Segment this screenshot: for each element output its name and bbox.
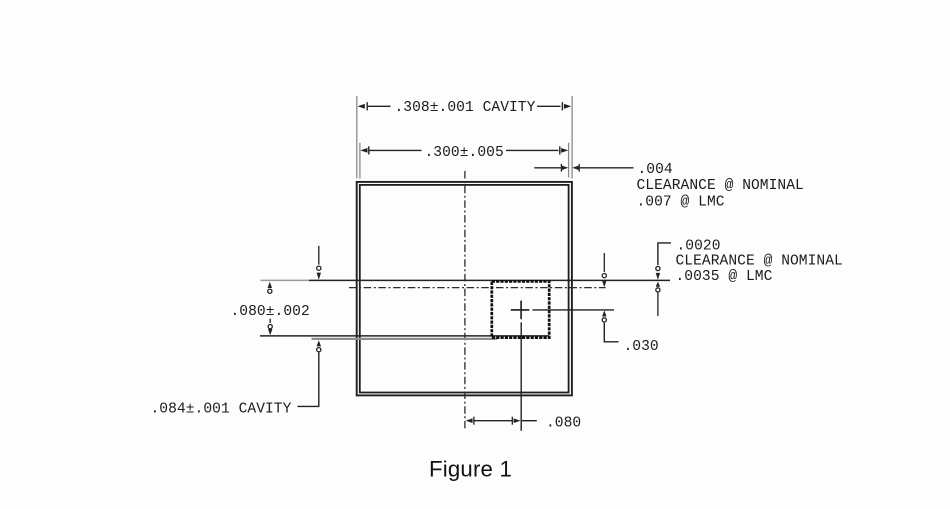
dim .080 bottom line [474, 420, 513, 422]
outer cavity square [357, 182, 572, 396]
dim .004 line right segment [580, 167, 634, 169]
dim .030 leader [604, 323, 618, 342]
svg-text:.007 @ LMC: .007 @ LMC [637, 194, 725, 210]
svg-text:Figure 1: Figure 1 [429, 457, 512, 482]
dim .084 upper circle [317, 266, 321, 270]
dim .080 vert lower circle [268, 325, 272, 329]
dim .308 left tick [366, 102, 368, 110]
dim .300 left arrowhead [360, 148, 367, 153]
dim .308 right arrowhead [564, 104, 571, 109]
dim .300 left tick [368, 146, 370, 154]
left outer extension line [356, 96, 358, 179]
svg-text:.084±.001 CAVITY: .084±.001 CAVITY [151, 402, 292, 418]
insert top line black segment [309, 279, 670, 281]
dim .084 upper tail [318, 246, 320, 265]
dim .080 bottom left arrowhead [466, 418, 473, 423]
dim .030 upper circle [602, 274, 606, 278]
svg-text:.0035 @ LMC: .0035 @ LMC [676, 269, 773, 285]
svg-text:CLEARANCE @ NOMINAL: CLEARANCE @ NOMINAL [676, 254, 843, 270]
insert bottom line [260, 335, 549, 337]
left inner extension line [359, 143, 361, 179]
dim .084 lower circle [317, 348, 321, 352]
dim .080 bottom right tick [511, 417, 513, 425]
center mark vertical bar [520, 301, 522, 320]
dim .308 right tick [561, 102, 563, 110]
dim .080 bottom left tick [473, 417, 475, 425]
dim .004 inner arrowhead [562, 166, 568, 170]
horizontal centerline [349, 287, 606, 289]
right outer extension line [571, 96, 573, 179]
dim .0020 lower arrowhead [656, 282, 660, 287]
dim .300 right tick [559, 146, 561, 154]
svg-text:.080±.002: .080±.002 [231, 304, 310, 320]
dim .300 right arrowhead [561, 148, 568, 153]
dim .084 upper arrowhead [317, 273, 321, 280]
svg-text:CLEARANCE @ NOMINAL: CLEARANCE @ NOMINAL [637, 178, 804, 194]
dim .0020 upper arrowhead [656, 273, 660, 280]
right inner extension line [568, 143, 570, 178]
dim .030 lower circle [602, 318, 606, 322]
svg-text:.080: .080 [546, 415, 581, 431]
svg-text:.030: .030 [624, 339, 659, 355]
line from center to right [533, 309, 615, 311]
inner insert square [360, 185, 569, 393]
dim .300 line right segment [506, 149, 559, 151]
dim .0020 bracket [658, 243, 671, 265]
dim .080 bottom line right stub [522, 420, 537, 422]
dim .0020 upper circle [656, 266, 660, 270]
svg-text:.308±.001 CAVITY: .308±.001 CAVITY [395, 100, 536, 116]
vertical centerline [464, 171, 466, 431]
line from center down [520, 322, 522, 431]
dim .080 bottom right arrowhead [514, 418, 521, 423]
dim .004 inner tick [560, 164, 562, 172]
insert top line gray segment [261, 279, 311, 281]
dim .0020 lower circle [656, 288, 660, 292]
dim .080 vert upper arrow circle [268, 289, 272, 293]
dim .300 line left segment [370, 149, 422, 151]
dim .308 line right segment [537, 105, 561, 107]
svg-text:.004: .004 [638, 162, 673, 178]
dim .084 lower arrowhead [317, 340, 321, 346]
dim .080 vert lower arrowhead [268, 329, 272, 335]
dim .030 upper arrowhead [602, 281, 606, 288]
dim .004 line left segment [534, 167, 561, 169]
dim .084 leader vertical [298, 353, 319, 407]
svg-text:.300±.005: .300±.005 [425, 145, 504, 161]
center mark horizontal bar [511, 309, 530, 311]
dim .308 line left segment [368, 105, 391, 107]
dim .0020 lower tail [657, 293, 659, 316]
dim .080 vert upper arrowhead [268, 282, 272, 288]
dim .004 outer arrowhead [572, 166, 578, 170]
dim .030 upper tail [603, 253, 605, 272]
dim .080 vert lower tail [269, 319, 271, 323]
small dashed cavity square [492, 281, 549, 337]
dim .308 left arrowhead [358, 104, 365, 109]
dim .030 lower arrowhead [602, 310, 606, 316]
cavity bottom gray line [312, 338, 498, 340]
dim .004 outer tick [578, 164, 580, 172]
svg-text:.0020: .0020 [677, 238, 721, 254]
